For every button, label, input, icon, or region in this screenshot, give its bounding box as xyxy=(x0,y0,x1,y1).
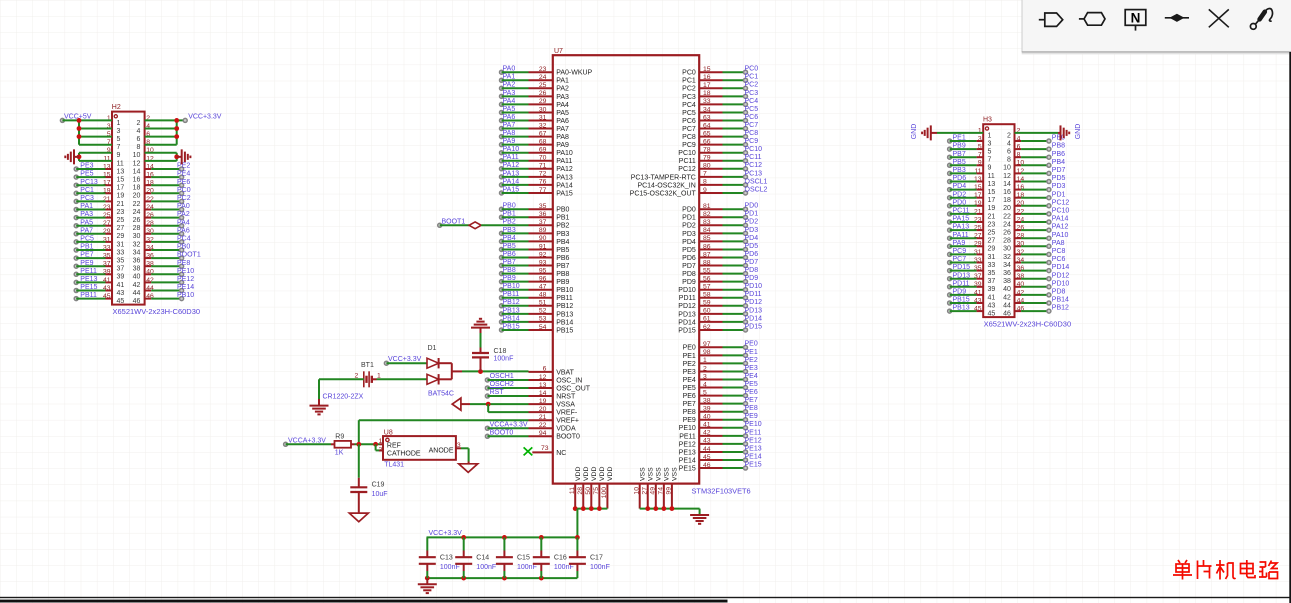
H3 pin 28 wire net PA10 xyxy=(1015,232,1069,240)
H2 pin 33 wire net PB1 xyxy=(74,244,112,252)
H3 pin 4 wire net PE0 xyxy=(1015,135,1066,143)
svg-text:VDD: VDD xyxy=(575,467,582,481)
svg-text:OSCH2: OSCH2 xyxy=(490,381,514,388)
svg-text:37: 37 xyxy=(988,278,996,285)
svg-text:VREF+: VREF+ xyxy=(556,418,579,425)
H3 pin 8 wire net PB6 xyxy=(1015,151,1066,159)
svg-text:40: 40 xyxy=(133,274,141,281)
svg-text:99: 99 xyxy=(666,487,673,495)
svg-text:OSC_OUT: OSC_OUT xyxy=(556,385,591,392)
svg-text:PC0: PC0 xyxy=(177,187,191,194)
svg-text:17: 17 xyxy=(988,197,996,204)
svg-text:18: 18 xyxy=(133,185,141,192)
svg-text:76: 76 xyxy=(539,179,547,186)
svg-text:VDD: VDD xyxy=(607,467,614,481)
svg-text:49: 49 xyxy=(649,487,656,495)
U7 pin 65 (PC8) net PC8 - wire xyxy=(682,130,758,141)
svg-text:PB11: PB11 xyxy=(556,295,573,302)
svg-text:PD9: PD9 xyxy=(745,275,759,282)
svg-text:16: 16 xyxy=(703,74,711,81)
svg-text:REF: REF xyxy=(387,442,401,449)
H2 pin 33 / pin 34 row xyxy=(103,244,154,256)
U7 pin 28 VDD (bottom) xyxy=(577,467,590,509)
U7 pin 98 (PE1) net PE1 - wire xyxy=(683,349,758,360)
IC U8 TL431 xyxy=(383,429,456,468)
svg-text:PA6: PA6 xyxy=(503,114,516,121)
svg-text:PA4: PA4 xyxy=(556,102,569,109)
svg-text:GND: GND xyxy=(911,124,918,140)
U7 pin 75 VDD (bottom) xyxy=(593,467,606,509)
U7 pin 18 (PC3) net PC3 - wire xyxy=(682,90,758,101)
svg-text:PB0: PB0 xyxy=(177,244,190,251)
svg-text:15: 15 xyxy=(117,177,125,184)
H3 pin 43 / pin 44 row xyxy=(974,297,1024,309)
H3 pin 23 wire net PA15 xyxy=(948,216,984,224)
U7 pin 55 (PD8) net PD8 - wire xyxy=(682,267,758,278)
svg-text:41: 41 xyxy=(988,294,996,301)
H3 pin 9 / pin 10 row xyxy=(978,160,1025,172)
svg-text:PD0: PD0 xyxy=(953,199,967,206)
svg-text:74: 74 xyxy=(657,487,664,495)
svg-text:PE8: PE8 xyxy=(177,260,190,267)
svg-text:PE6: PE6 xyxy=(683,393,696,400)
svg-text:6: 6 xyxy=(136,136,140,143)
svg-text:89: 89 xyxy=(539,227,547,234)
H2 pin 16 wire net PE4 xyxy=(145,171,191,179)
svg-text:PB8: PB8 xyxy=(503,267,516,274)
H3 pin 26 wire net PA12 xyxy=(1015,224,1069,232)
svg-text:PA14: PA14 xyxy=(503,178,520,185)
svg-text:3: 3 xyxy=(457,442,461,449)
svg-text:PC9: PC9 xyxy=(953,248,967,255)
H2 pin 13 wire net PE3 xyxy=(74,163,112,171)
svg-text:PE4: PE4 xyxy=(177,171,190,178)
svg-text:VCC+3.3V: VCC+3.3V xyxy=(429,530,463,537)
H2 pin 35 wire net PE7 xyxy=(74,252,112,260)
H3 pin 1 ground with GND label xyxy=(911,124,983,141)
svg-text:PA7: PA7 xyxy=(80,227,93,234)
U7 pin 26 (PA3) net PA3 - wire xyxy=(500,90,570,101)
svg-text:PD3: PD3 xyxy=(682,231,696,238)
svg-text:C19: C19 xyxy=(372,482,385,489)
H2 pin 41 wire net PE13 xyxy=(74,276,112,284)
svg-text:31: 31 xyxy=(539,114,547,121)
U7 pin 2 (PE3) net PE3 - wire xyxy=(683,365,758,376)
svg-text:32: 32 xyxy=(133,241,141,248)
svg-text:PD1: PD1 xyxy=(745,211,759,218)
svg-text:93: 93 xyxy=(539,259,547,266)
svg-text:PE6: PE6 xyxy=(745,389,758,396)
svg-text:PA5: PA5 xyxy=(503,106,516,113)
U7 pin 84 (PD3) net PD3 - wire xyxy=(682,227,758,238)
svg-text:PE12: PE12 xyxy=(745,437,762,444)
svg-text:PA3: PA3 xyxy=(80,211,93,218)
canvas bottom border line xyxy=(0,597,1291,598)
ground triangle below C19 xyxy=(349,513,368,522)
H2 VCC+5V feed pins 1-3-5-7 xyxy=(60,113,112,144)
svg-text:PB10: PB10 xyxy=(177,292,194,299)
svg-text:PD7: PD7 xyxy=(682,263,696,270)
svg-text:PE9: PE9 xyxy=(683,417,696,424)
H3 pin 42 wire net PD8 xyxy=(1015,289,1066,297)
svg-text:PB12: PB12 xyxy=(1052,305,1069,312)
svg-text:PD1: PD1 xyxy=(1052,191,1066,198)
H3 pin 5 / pin 6 row xyxy=(978,144,1021,156)
H3 pin 13 / pin 14 row xyxy=(974,176,1024,188)
svg-text:43: 43 xyxy=(117,290,125,297)
H3 pin 30 wire net PA8 xyxy=(1015,240,1065,248)
svg-text:90: 90 xyxy=(539,235,547,242)
svg-text:69: 69 xyxy=(539,147,547,154)
svg-text:14: 14 xyxy=(539,390,547,397)
svg-text:46: 46 xyxy=(1003,311,1011,318)
H3 pin 33 wire net PC7 xyxy=(948,256,984,264)
U7 pin 50 VDD (bottom) xyxy=(585,467,598,509)
U7 pin 56 (PD9) net PD9 - wire xyxy=(682,275,758,286)
H2 pin 7 / pin 8 row xyxy=(107,139,150,151)
toolbar icon: N netname box xyxy=(1125,10,1146,31)
svg-text:PD7: PD7 xyxy=(1052,167,1066,174)
U7 pin 72 (PA13) net PA13 - wire xyxy=(500,170,573,181)
H2 pin 27 / pin 28 row xyxy=(103,220,154,232)
svg-text:38: 38 xyxy=(133,266,141,273)
svg-text:PA15: PA15 xyxy=(953,216,970,223)
svg-text:PB6: PB6 xyxy=(503,251,516,258)
svg-text:PD8: PD8 xyxy=(1052,289,1066,296)
svg-text:3: 3 xyxy=(703,373,707,380)
svg-text:PB8: PB8 xyxy=(1052,143,1065,150)
U7 pin 32 (PA7) net PA7 - wire xyxy=(500,122,570,133)
U7 pin 66 (PC9) net PC9 - wire xyxy=(682,138,758,149)
svg-text:VSS: VSS xyxy=(663,467,670,481)
U7 pin 9 (PC15-OSC32K_OUT) net OSCL2 - wire xyxy=(630,186,768,197)
svg-text:PC2: PC2 xyxy=(745,82,759,89)
svg-text:PE5: PE5 xyxy=(683,385,696,392)
svg-text:PE5: PE5 xyxy=(80,171,93,178)
H2 pin 36 wire net BOOT1 xyxy=(145,252,201,260)
H2 pin 29 wire net PA7 xyxy=(74,227,112,235)
U7 pin 48 (PB11) net PB11 - wire xyxy=(500,291,573,302)
svg-text:PB1: PB1 xyxy=(556,215,569,222)
wire VDD bus below U7 xyxy=(573,506,608,537)
H2 pin 20 wire net PC0 xyxy=(145,187,191,195)
svg-text:34: 34 xyxy=(703,106,711,113)
U7 pin 80 (PC12) net PC12 - wire xyxy=(678,162,762,173)
H2 pin 38 wire net PE8 xyxy=(145,260,191,268)
svg-text:PD15: PD15 xyxy=(953,264,971,271)
svg-text:PE0: PE0 xyxy=(745,341,758,348)
svg-text:PB2: PB2 xyxy=(503,219,516,226)
svg-text:PA7: PA7 xyxy=(556,126,569,133)
svg-text:33: 33 xyxy=(988,262,996,269)
svg-text:PD15: PD15 xyxy=(745,323,763,330)
svg-text:10: 10 xyxy=(1003,165,1011,172)
svg-text:VBAT: VBAT xyxy=(556,369,574,376)
svg-text:PB10: PB10 xyxy=(556,287,573,294)
svg-text:7: 7 xyxy=(703,171,707,178)
svg-text:38: 38 xyxy=(703,397,711,404)
svg-text:PB3: PB3 xyxy=(503,227,516,234)
H3 pin 17 / pin 18 row xyxy=(974,192,1024,204)
svg-text:PE15: PE15 xyxy=(80,284,97,291)
svg-text:PA6: PA6 xyxy=(177,227,190,234)
H3 pin 13 wire net PD6 xyxy=(948,175,984,183)
wire ground rail below C13-C17 xyxy=(425,576,578,581)
H3 pin 36 wire net PD14 xyxy=(1015,264,1070,272)
H2 pin 15 wire net PE5 xyxy=(74,171,112,179)
svg-text:PC4: PC4 xyxy=(682,102,696,109)
svg-text:84: 84 xyxy=(703,227,711,234)
H3 pin 5 wire net PB9 xyxy=(948,143,984,151)
svg-text:PD9: PD9 xyxy=(682,279,696,286)
wire BT1 pin2 to ground xyxy=(319,379,364,405)
svg-text:81: 81 xyxy=(703,203,711,210)
H2 pin 17 / pin 18 row xyxy=(103,180,154,192)
svg-text:PD2: PD2 xyxy=(682,223,696,230)
U7 pin 35 (PB0) net PB0 - wire xyxy=(500,203,570,214)
svg-text:PC13-TAMPER-RTC: PC13-TAMPER-RTC xyxy=(631,174,696,181)
svg-text:13: 13 xyxy=(988,181,996,188)
wire R9 to U8 and VREF+ node xyxy=(355,420,380,446)
svg-text:PA5: PA5 xyxy=(556,110,569,117)
svg-text:PA9: PA9 xyxy=(953,240,966,247)
H3 pin 39 wire net PD11 xyxy=(948,280,984,288)
svg-text:77: 77 xyxy=(539,187,547,194)
svg-text:N: N xyxy=(1131,10,1141,25)
svg-text:PD4: PD4 xyxy=(745,235,759,242)
svg-text:32: 32 xyxy=(539,122,547,129)
svg-text:BOOT0: BOOT0 xyxy=(556,434,580,441)
svg-text:OSCL1: OSCL1 xyxy=(745,178,768,185)
svg-text:PD9: PD9 xyxy=(953,289,967,296)
svg-text:27: 27 xyxy=(117,225,125,232)
svg-text:30: 30 xyxy=(133,233,141,240)
svg-text:1: 1 xyxy=(117,120,121,127)
svg-text:PA7: PA7 xyxy=(503,122,516,129)
svg-text:PB14: PB14 xyxy=(556,319,573,326)
svg-text:29: 29 xyxy=(117,233,125,240)
H2 ground pins 10-12 with ground symbol xyxy=(145,149,191,164)
svg-text:PD10: PD10 xyxy=(745,283,763,290)
svg-text:PC0: PC0 xyxy=(682,70,696,77)
svg-text:PE15: PE15 xyxy=(679,465,696,472)
U7 pin 69 (PA10) net PA10 - wire xyxy=(500,146,573,157)
svg-text:PA9: PA9 xyxy=(556,142,569,149)
svg-text:7: 7 xyxy=(988,157,992,164)
svg-text:100nF: 100nF xyxy=(476,564,496,571)
H2 pin 44 wire net PE14 xyxy=(145,284,195,292)
svg-text:20: 20 xyxy=(133,193,141,200)
svg-text:23: 23 xyxy=(117,209,125,216)
svg-text:66: 66 xyxy=(703,138,711,145)
svg-text:15: 15 xyxy=(703,66,711,73)
H3 pin 9 wire net PB5 xyxy=(948,159,984,167)
svg-text:45: 45 xyxy=(988,311,996,318)
U7 pin 54 (PB15) net PB15 - wire xyxy=(500,323,574,334)
H2 pin 9 / pin 10 row xyxy=(107,147,154,159)
svg-text:PE9: PE9 xyxy=(80,260,93,267)
H2 pin 39 wire net PE11 xyxy=(74,268,112,276)
U7 pin 45 (PE14) net PE14 - wire xyxy=(679,453,762,464)
svg-text:PD6: PD6 xyxy=(682,255,696,262)
svg-text:OSC_IN: OSC_IN xyxy=(556,377,582,384)
svg-text:PD3: PD3 xyxy=(1052,183,1066,190)
svg-text:4: 4 xyxy=(703,381,707,388)
svg-text:PA8: PA8 xyxy=(556,134,569,141)
H2 pin 40 wire net PE10 xyxy=(145,268,195,276)
svg-text:55: 55 xyxy=(703,267,711,274)
svg-text:PA4: PA4 xyxy=(503,98,516,105)
svg-text:3: 3 xyxy=(988,140,992,147)
svg-text:VDD: VDD xyxy=(591,467,598,481)
svg-text:19: 19 xyxy=(539,398,547,405)
U7 pin 21 VREF+ long wire to TL431 node xyxy=(359,414,579,425)
H3 pin 45 wire net PB13 xyxy=(948,305,984,313)
U7 pin 22 VDDA net VCCA+3.3V xyxy=(485,422,576,433)
wire VCC+3.3V rail above C13-C17 xyxy=(427,535,580,540)
svg-text:BT1: BT1 xyxy=(361,362,374,369)
svg-text:82: 82 xyxy=(703,211,711,218)
svg-text:8: 8 xyxy=(136,144,140,151)
svg-text:15: 15 xyxy=(988,189,996,196)
H3 pin 10 wire net PB4 xyxy=(1015,159,1066,167)
svg-text:7: 7 xyxy=(117,144,121,151)
svg-text:PC7: PC7 xyxy=(745,122,759,129)
svg-text:PC2: PC2 xyxy=(177,195,191,202)
svg-text:PB12: PB12 xyxy=(503,299,520,306)
svg-text:26: 26 xyxy=(1003,230,1011,237)
svg-text:12: 12 xyxy=(1003,173,1011,180)
U7 pin 33 (PC4) net PC4 - wire xyxy=(682,98,758,109)
svg-text:14: 14 xyxy=(1003,181,1011,188)
svg-text:18: 18 xyxy=(703,90,711,97)
svg-text:54: 54 xyxy=(539,324,547,331)
toolbar icon: net port xyxy=(1039,13,1063,26)
H3 pin 19 wire net PD0 xyxy=(948,199,984,207)
U7 pin 41 (PE10) net PE10 - wire xyxy=(679,421,762,432)
svg-text:PA12: PA12 xyxy=(1052,224,1069,231)
svg-text:43: 43 xyxy=(703,438,711,445)
H3 pin 11 / pin 12 row xyxy=(975,168,1025,180)
U7 pin 100 VDD (bottom) xyxy=(601,467,614,509)
svg-text:PA10: PA10 xyxy=(503,146,520,153)
svg-text:100nF: 100nF xyxy=(517,564,537,571)
U7 pin 38 (PE7) net PE7 - wire xyxy=(683,397,758,408)
U7 pin 10 VSS (bottom) xyxy=(633,467,646,509)
svg-text:41: 41 xyxy=(117,282,125,289)
svg-text:PC5: PC5 xyxy=(682,110,696,117)
svg-text:PE3: PE3 xyxy=(80,163,93,170)
H3 pin 29 / pin 30 row xyxy=(974,241,1024,253)
svg-text:VCC+3.3V: VCC+3.3V xyxy=(188,113,222,120)
svg-text:28: 28 xyxy=(133,225,141,232)
svg-text:PC6: PC6 xyxy=(745,114,759,121)
svg-text:PC4: PC4 xyxy=(177,236,191,243)
svg-text:57: 57 xyxy=(703,284,711,291)
svg-text:VREF-: VREF- xyxy=(556,410,578,417)
svg-text:PC12: PC12 xyxy=(745,162,763,169)
H2 pin 5 / pin 6 row xyxy=(107,131,150,143)
H3 pin 27 / pin 28 row xyxy=(974,233,1024,245)
svg-text:4: 4 xyxy=(136,128,140,135)
H2 pin 15 / pin 16 row xyxy=(103,172,154,184)
U8 pin 1 REF xyxy=(379,438,383,445)
svg-text:PE2: PE2 xyxy=(177,163,190,170)
svg-text:44: 44 xyxy=(703,446,711,453)
svg-text:PB7: PB7 xyxy=(953,151,966,158)
H3 pin 46 wire net PB12 xyxy=(1015,305,1070,313)
svg-text:42: 42 xyxy=(703,430,711,437)
svg-text:79: 79 xyxy=(703,155,711,162)
svg-text:PC14-OSC32K_IN: PC14-OSC32K_IN xyxy=(637,182,695,189)
svg-text:PB9: PB9 xyxy=(953,143,966,150)
svg-text:PE10: PE10 xyxy=(679,425,696,432)
H2 pin 21 / pin 22 row xyxy=(103,196,154,208)
svg-text:PE11: PE11 xyxy=(80,268,97,275)
H2 pin 21 wire net PC3 xyxy=(74,195,112,203)
svg-text:35: 35 xyxy=(539,203,547,210)
H3 pin 24 wire net PA14 xyxy=(1015,216,1069,224)
H2 pin 35 / pin 36 row xyxy=(103,253,154,265)
svg-text:98: 98 xyxy=(703,349,711,356)
wire VSS bus below U7 to ground xyxy=(640,506,700,515)
svg-text:16: 16 xyxy=(133,177,141,184)
svg-text:24: 24 xyxy=(1003,221,1011,228)
H2 pin 18 wire net PE6 xyxy=(145,179,191,187)
U7 pin 1 (PE2) net PE2 - wire xyxy=(683,357,758,368)
svg-text:PB13: PB13 xyxy=(556,311,573,318)
svg-text:PE14: PE14 xyxy=(745,453,762,460)
svg-text:PB12: PB12 xyxy=(556,303,573,310)
svg-text:OSCH1: OSCH1 xyxy=(490,373,514,380)
svg-text:PE7: PE7 xyxy=(80,252,93,259)
svg-text:PC8: PC8 xyxy=(1052,248,1066,255)
H2 pin 43 wire net PE15 xyxy=(74,284,112,292)
svg-text:PA1: PA1 xyxy=(556,78,569,85)
svg-text:ANODE: ANODE xyxy=(429,447,454,454)
H2 ground pins 9-11 with ground symbol xyxy=(65,149,112,164)
svg-text:PE1: PE1 xyxy=(745,349,758,356)
svg-text:26: 26 xyxy=(133,217,141,224)
svg-text:PA9: PA9 xyxy=(503,138,516,145)
svg-text:STM32F103VET6: STM32F103VET6 xyxy=(692,487,751,496)
svg-text:PD11: PD11 xyxy=(745,291,762,298)
U7 pin 74 VSS (bottom) xyxy=(657,467,670,509)
svg-text:37: 37 xyxy=(539,219,547,226)
H3 pin 43 wire net PB15 xyxy=(948,297,984,305)
U7 pin 94 BOOT0 net BOOT0 xyxy=(485,430,580,441)
U7 pin 89 (PB3) net PB3 - wire xyxy=(500,227,570,238)
svg-text:VSS: VSS xyxy=(655,467,662,481)
H3 pin 25 wire net PA13 xyxy=(948,224,984,232)
svg-text:PD14: PD14 xyxy=(745,315,763,322)
svg-text:23: 23 xyxy=(539,66,547,73)
svg-text:34: 34 xyxy=(1003,262,1011,269)
svg-text:PB0: PB0 xyxy=(556,207,569,214)
svg-text:TL431: TL431 xyxy=(384,461,404,468)
svg-text:50: 50 xyxy=(585,487,592,495)
svg-text:31: 31 xyxy=(988,254,996,261)
H2 pin 27 wire net PA5 xyxy=(74,219,112,227)
U7 pin 77 (PA15) net PA15 - wire xyxy=(500,186,573,197)
svg-text:100nF: 100nF xyxy=(554,564,574,571)
U7 pin 4 (PE5) net PE5 - wire xyxy=(683,381,758,392)
svg-text:44: 44 xyxy=(133,290,141,297)
wire D1 output to U7 VBAT xyxy=(452,369,529,374)
svg-text:PA11: PA11 xyxy=(503,154,519,161)
svg-text:30: 30 xyxy=(539,106,547,113)
diode D1 BAT54C (dual) xyxy=(372,345,454,397)
